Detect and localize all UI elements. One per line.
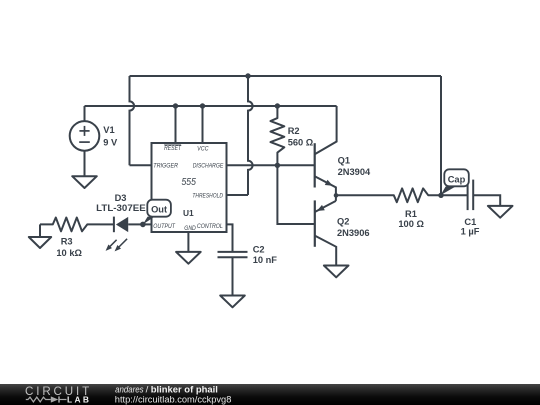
- LED light arrow 1: [107, 240, 116, 249]
- wire reset pin drop: [175, 106, 177, 143]
- ground for U1: [176, 252, 201, 264]
- svg-text:10 nF: 10 nF: [253, 255, 278, 265]
- svg-text:OUTPUT: OUTPUT: [153, 223, 176, 230]
- svg-text:555: 555: [182, 177, 197, 188]
- transistor Q2 2N3906: [314, 200, 316, 246]
- svg-text:GND: GND: [184, 225, 196, 232]
- resistor R2: [271, 105, 285, 165]
- LED light arrow 2: [116, 239, 127, 250]
- wire threshold riser with hops: [248, 76, 253, 195]
- ground for Q2: [324, 266, 349, 278]
- node R2 top junction: [275, 103, 280, 108]
- ground for V1: [72, 176, 97, 188]
- svg-text:1 µF: 1 µF: [461, 227, 480, 237]
- svg-text:D3: D3: [115, 193, 127, 203]
- svg-text:U1: U1: [183, 208, 194, 218]
- svg-text:/: /: [146, 384, 149, 395]
- transistor Q1 2N3904: [314, 143, 316, 187]
- svg-text:Out: Out: [151, 204, 167, 214]
- resistor R1: [381, 188, 441, 202]
- svg-text:andares: andares: [115, 384, 144, 395]
- svg-text:blinker of phail: blinker of phail: [151, 384, 218, 395]
- svg-text:2N3906: 2N3906: [337, 228, 370, 238]
- node emitter junction: [334, 193, 339, 198]
- wire output pin: [143, 223, 152, 225]
- svg-text:VCC: VCC: [197, 146, 209, 153]
- svg-text:100 Ω: 100 Ω: [398, 219, 424, 229]
- svg-text:2N3904: 2N3904: [338, 167, 371, 177]
- svg-text:V1: V1: [103, 125, 114, 135]
- voltage source V1: [70, 121, 100, 151]
- svg-text:Q2: Q2: [337, 216, 349, 226]
- wire top rail y=106: [85, 105, 337, 107]
- svg-text:10 kΩ: 10 kΩ: [56, 248, 82, 258]
- wire R2 junction down to Q2 base: [277, 165, 314, 224]
- svg-text:http://circuitlab.com/cckpvg8: http://circuitlab.com/cckpvg8: [115, 395, 232, 405]
- wire control pin to C2: [227, 224, 233, 252]
- wire V1 bottom: [84, 151, 86, 177]
- ground for C1: [488, 206, 513, 218]
- footer logo resistor-diode glyph: [26, 397, 51, 402]
- svg-text:R2: R2: [288, 126, 300, 136]
- wire discharge pin to Q1 base: [227, 164, 315, 166]
- node output wire end: [140, 222, 146, 228]
- IC U1 555 timer box: [152, 143, 227, 232]
- svg-text:C1: C1: [464, 217, 476, 227]
- svg-text:R1: R1: [405, 209, 417, 219]
- wire emitters to R1: [336, 194, 381, 196]
- svg-text:LTL-307EE: LTL-307EE: [96, 203, 146, 213]
- LED D3: [100, 223, 114, 225]
- svg-text:R3: R3: [61, 237, 73, 247]
- svg-text:DISCHARGE: DISCHARGE: [193, 163, 224, 170]
- wire trigger riser with hop: [130, 76, 135, 165]
- flag Cap: [441, 187, 456, 196]
- svg-text:Cap: Cap: [448, 174, 466, 184]
- wire topmost rail y=76: [130, 75, 442, 77]
- svg-text:C2: C2: [253, 244, 265, 254]
- svg-text:TRIGGER: TRIGGER: [153, 163, 178, 170]
- node vcc-rail junction: [200, 103, 205, 108]
- wire right drop x=441: [440, 76, 442, 195]
- ground for R3: [29, 237, 51, 248]
- svg-text:RESET: RESET: [164, 145, 182, 152]
- flag Out: [143, 217, 155, 225]
- wire trigger pin: [130, 164, 152, 166]
- wire threshold pin: [227, 194, 249, 196]
- svg-text:CONTROL: CONTROL: [197, 223, 223, 230]
- capacitor C1: [441, 194, 468, 196]
- svg-text:9 V: 9 V: [103, 138, 118, 148]
- node reset-rail junction: [173, 103, 178, 108]
- wire gnd pin: [187, 232, 189, 252]
- resistor R3: [40, 218, 100, 232]
- footer bar: [0, 384, 540, 405]
- wire V1 top to rail: [84, 106, 86, 121]
- node threshold riser to topmost rail: [245, 73, 250, 78]
- node R1-C1 junction: [438, 193, 443, 198]
- capacitor C2: [218, 251, 248, 253]
- node R2 bottom junction: [275, 163, 280, 168]
- wire vcc pin drop: [202, 106, 204, 143]
- svg-text:LAB: LAB: [67, 396, 91, 405]
- svg-text:Q1: Q1: [338, 155, 350, 165]
- wire R3 left to ground: [39, 224, 41, 237]
- svg-text:560 Ω: 560 Ω: [288, 138, 314, 148]
- ground for C2: [220, 296, 245, 308]
- svg-text:THRESHOLD: THRESHOLD: [192, 192, 223, 199]
